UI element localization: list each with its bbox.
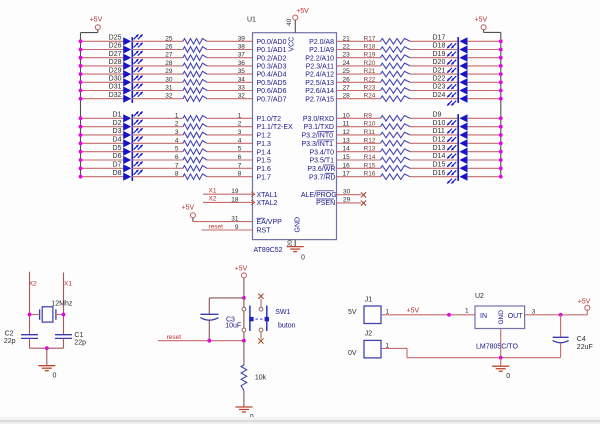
svg-text:J2: J2 (365, 330, 373, 337)
svg-text:34: 34 (238, 76, 246, 83)
svg-text:LM7805C/TO: LM7805C/TO (476, 343, 518, 350)
wire bus to LED D25 (79, 39, 124, 43)
svg-text:D30: D30 (109, 76, 122, 83)
wire LED D22 to bus (467, 80, 502, 84)
wire resistor to LED D22 (410, 81, 458, 83)
LED D31 (109, 83, 143, 95)
wire resistor to pin 34 (207, 81, 253, 83)
svg-text:D29: D29 (109, 67, 122, 74)
svg-text:19: 19 (231, 188, 239, 195)
wire LED D26 to resistor 26 (132, 49, 183, 51)
no-connect X SW1 bottom pin (258, 332, 263, 344)
wire LED D31 to resistor 31 (132, 90, 183, 92)
capacitor C3 10uF (200, 314, 241, 329)
svg-text:D16: D16 (433, 170, 446, 177)
capacitor C1 22p (55, 332, 86, 347)
svg-text:0: 0 (301, 255, 305, 262)
resistor R12 (364, 137, 411, 146)
capacitor C4 22uF (553, 315, 593, 358)
pin 29 (343, 197, 351, 204)
wire resistor to pin 33 (207, 90, 253, 92)
LED D8 (113, 169, 144, 180)
LED D30 (109, 75, 143, 87)
svg-text:PSEN: PSEN (316, 200, 335, 207)
svg-text:P1.1/T2-EX: P1.1/T2-EX (257, 124, 294, 131)
U1 pin label PSEN (316, 199, 335, 207)
wire pin 25 to resistor R21 (337, 73, 381, 75)
svg-text:4: 4 (238, 137, 242, 144)
ground 0 at U1 (287, 247, 305, 262)
pin 9 (235, 224, 239, 231)
pin 11 (343, 121, 350, 128)
wire crystal to X1 (56, 313, 66, 317)
svg-text:27: 27 (165, 52, 173, 59)
wire LED D8 to resistor 8 (132, 176, 183, 178)
wire resistor to pin 5 (207, 151, 253, 153)
svg-text:X1: X1 (64, 281, 72, 288)
svg-text:P1.3: P1.3 (257, 141, 272, 148)
svg-text:D20: D20 (433, 59, 446, 66)
resistor 30 (165, 76, 207, 85)
wire LED D19 to bus (467, 56, 502, 60)
resistor 8 (175, 171, 207, 180)
pin 8 (238, 171, 242, 178)
connector J2 (348, 330, 381, 358)
svg-text:P0.2/AD2: P0.2/AD2 (257, 55, 287, 62)
wire resistor to pin 36 (207, 65, 253, 67)
svg-text:reset: reset (167, 334, 182, 341)
svg-text:P2.7/A15: P2.7/A15 (305, 96, 334, 103)
wire resistor to LED D10 (410, 126, 458, 128)
capacitor C2 22p (4, 331, 38, 346)
wire resistor to LED D13 (410, 151, 458, 153)
LED D3 (113, 128, 144, 139)
svg-text:D18: D18 (433, 43, 446, 50)
svg-text:22p: 22p (74, 340, 86, 347)
wire resistor to LED D17 (410, 40, 458, 42)
svg-text:P0.5/AD5: P0.5/AD5 (257, 80, 287, 87)
svg-text:31: 31 (231, 216, 239, 223)
svg-text:29: 29 (165, 68, 173, 75)
wire resistor to pin 6 (207, 159, 253, 161)
wire LED D1 to resistor 1 (132, 117, 183, 119)
wire U2 OUT to +5V (525, 310, 588, 316)
svg-text:EA/VPP: EA/VPP (257, 219, 283, 226)
wire LED D20 to bus (467, 64, 502, 68)
svg-text:P3.1/TXD: P3.1/TXD (304, 124, 334, 131)
U1 pin label ALE/PROG (301, 191, 337, 199)
svg-text:D8: D8 (113, 170, 122, 177)
resistor 25 (165, 35, 207, 44)
pin 37 (238, 52, 246, 59)
svg-text:P2.1/A9: P2.1/A9 (309, 47, 334, 54)
wire button branch (243, 298, 245, 341)
svg-text:8: 8 (175, 171, 179, 178)
resistor R11 (364, 129, 411, 138)
pin 27 (343, 85, 351, 92)
U1 pin labels P2 port (305, 39, 334, 103)
svg-text:D10: D10 (433, 120, 446, 127)
node X1 (crystal right) (64, 273, 73, 335)
svg-text:D7: D7 (113, 162, 122, 169)
wire pin 13 to resistor R12 (337, 142, 381, 144)
pin 33 (238, 85, 246, 92)
U1 part value AT89C52 (254, 247, 283, 254)
svg-text:P1.7: P1.7 (257, 174, 272, 181)
resistor R19 (364, 52, 411, 61)
LED D7 (113, 161, 144, 173)
pin 19 (231, 188, 239, 195)
resistor R18 (364, 44, 411, 53)
svg-text:10uF: 10uF (225, 323, 241, 330)
svg-text:+5V: +5V (475, 16, 488, 23)
svg-text:9: 9 (235, 224, 239, 231)
U1 pin labels P1 port (257, 116, 294, 181)
svg-text:8: 8 (238, 171, 242, 178)
net +5V label (407, 308, 420, 315)
svg-text:R21: R21 (364, 68, 376, 75)
resistor 1 (175, 112, 207, 121)
svg-text:P3.0/RXD: P3.0/RXD (303, 116, 334, 123)
wire GND pin to ground (294, 240, 296, 247)
wire LED D15 to bus (467, 166, 502, 170)
svg-text:D28: D28 (109, 59, 122, 66)
svg-text:C1: C1 (74, 332, 83, 339)
LED D20 (433, 59, 468, 73)
wire resistor to pin 37 (207, 57, 253, 59)
svg-text:P0.1/AD1: P0.1/AD1 (257, 47, 287, 54)
LED D14 (433, 153, 468, 167)
svg-text:+5V: +5V (182, 204, 195, 211)
wire pin 17 to resistor R16 (337, 176, 381, 178)
pin 20 (rotated) (287, 240, 294, 248)
U1 pin label EA/VPP (257, 218, 283, 226)
resistor R14 (364, 154, 411, 163)
wire resistor to pin 39 (207, 40, 253, 42)
power +5V (right LED supply) (475, 16, 488, 29)
LED D10 (433, 120, 468, 134)
svg-text:P2.5/A13: P2.5/A13 (305, 80, 334, 87)
svg-text:D1: D1 (113, 112, 122, 119)
LED D2 (113, 119, 144, 131)
pin 6 (238, 154, 242, 161)
wire LED D4 to resistor 4 (132, 142, 183, 144)
wire bus to LED D8 (79, 175, 124, 179)
U1 pin label VCC (rotated) (289, 37, 296, 52)
svg-text:R12: R12 (364, 137, 376, 144)
svg-text:R17: R17 (364, 35, 376, 42)
wire resistor to pin 1 (207, 117, 253, 119)
svg-text:R20: R20 (364, 60, 376, 67)
svg-text:P2.2/A10: P2.2/A10 (305, 55, 334, 62)
svg-text:P0.0/AD0: P0.0/AD0 (257, 39, 287, 46)
svg-text:R16: R16 (364, 171, 376, 178)
svg-text:22uF: 22uF (577, 344, 593, 351)
svg-text:P0.3/AD3: P0.3/AD3 (257, 64, 287, 71)
wire pin 28 to resistor R24 (337, 98, 381, 100)
wire resistor to LED D11 (410, 134, 458, 136)
resistor R17 (364, 35, 411, 44)
connector J1 (348, 296, 381, 323)
LED D6 (113, 153, 144, 165)
resistor 10k (241, 365, 267, 391)
wire pin 22 to resistor R18 (337, 49, 381, 51)
svg-text:R9: R9 (364, 112, 373, 119)
wire C1 to ground rail (63, 338, 65, 348)
svg-text:P3.2/INT0: P3.2/INT0 (302, 133, 334, 140)
resistor 3 (175, 129, 207, 138)
wire resistor to pin 2 (207, 126, 253, 128)
svg-text:5: 5 (238, 146, 242, 153)
resistor 26 (165, 44, 207, 53)
svg-text:D13: D13 (433, 145, 446, 152)
pin 32 (238, 93, 246, 100)
U1 pin label GND (rotated) (295, 217, 302, 233)
LED D26 (109, 42, 143, 54)
svg-text:D27: D27 (109, 51, 122, 58)
wire bus to LED D26 (79, 48, 124, 52)
wire resistor to pin 7 (207, 167, 253, 169)
svg-text:5: 5 (175, 146, 179, 153)
pin 40 (rotated) (286, 18, 293, 26)
wire LED D9 to bus (467, 116, 502, 120)
svg-text:U2: U2 (475, 293, 484, 300)
wire ground rail (30, 346, 64, 350)
wire R to ground (243, 391, 245, 407)
wire LED D18 to bus (467, 48, 502, 52)
wire pin 15 to resistor R14 (337, 159, 381, 161)
wire resistor to pin 38 (207, 49, 253, 51)
svg-text:4: 4 (175, 137, 179, 144)
svg-text:P3.4/T0: P3.4/T0 (309, 149, 334, 156)
clock chevron XTAL2 (251, 200, 254, 205)
svg-text:3: 3 (175, 129, 179, 136)
LED D28 (109, 59, 143, 71)
svg-text:33: 33 (238, 85, 246, 92)
svg-text:SW1: SW1 (275, 309, 290, 316)
svg-text:C2: C2 (5, 331, 14, 338)
svg-text:R18: R18 (364, 44, 376, 51)
wire LED D28 to resistor 28 (132, 65, 183, 67)
svg-text:P2.6/A14: P2.6/A14 (305, 88, 334, 95)
resistor R20 (364, 60, 411, 69)
pin 7 (238, 162, 242, 169)
svg-text:1: 1 (175, 112, 179, 119)
wire bus to LED D28 (79, 64, 124, 68)
svg-text:P0.7/AD7: P0.7/AD7 (257, 96, 287, 103)
pin 26 (343, 76, 351, 83)
wire U2 GND to ground (500, 358, 502, 366)
pin 17 (343, 171, 351, 178)
resistor 5 (175, 146, 207, 155)
wire C3 to reset node (208, 320, 210, 340)
wire LED D27 to resistor 27 (132, 57, 183, 59)
svg-text:XTAL1: XTAL1 (257, 192, 278, 199)
pin 38 (238, 44, 246, 51)
pin 3 of U2 (532, 308, 536, 315)
svg-text:D9: D9 (433, 112, 442, 119)
wire LED D23 to bus (467, 89, 502, 93)
svg-text:0: 0 (53, 373, 57, 380)
wire resistor to pin 32 (207, 98, 253, 100)
wire bus to LED D31 (79, 89, 124, 93)
svg-text:P1.4: P1.4 (257, 149, 272, 156)
svg-text:31: 31 (165, 85, 173, 92)
svg-text:P2.4/A12: P2.4/A12 (305, 72, 334, 79)
svg-text:0V: 0V (348, 350, 357, 357)
svg-text:P1.5: P1.5 (257, 158, 272, 165)
svg-text:+5V: +5V (407, 308, 420, 315)
wire LED D12 to bus (467, 141, 502, 145)
wire pin 23 to resistor R19 (337, 57, 381, 59)
svg-text:P0.6/AD6: P0.6/AD6 (257, 88, 287, 95)
svg-text:D2: D2 (113, 120, 122, 127)
wire +5V to right bus (484, 30, 501, 33)
pin 14 (343, 146, 351, 153)
wire LED D25 to resistor 25 (132, 40, 183, 42)
wire resistor to LED D19 (410, 57, 458, 59)
clock chevron XTAL1 (251, 192, 254, 197)
svg-text:P2.3/A11: P2.3/A11 (306, 64, 334, 71)
svg-text:P3.3/INT1: P3.3/INT1 (302, 141, 334, 148)
svg-text:P0.4/AD4: P0.4/AD4 (257, 72, 287, 79)
power +5V at reset circuit (235, 266, 248, 278)
wire LED D6 to resistor 6 (132, 159, 183, 161)
svg-text:IN: IN (480, 313, 487, 320)
svg-text:R10: R10 (364, 121, 376, 128)
wire LED D3 to resistor 3 (132, 134, 183, 136)
resistor R23 (364, 85, 411, 94)
wire LED D11 to bus (467, 133, 502, 137)
svg-text:X1: X1 (209, 187, 217, 194)
svg-text:36: 36 (238, 60, 246, 67)
wire bus to LED D6 (79, 158, 124, 162)
wire LED D30 to resistor 30 (132, 81, 183, 83)
svg-text:6: 6 (238, 154, 242, 161)
svg-text:6: 6 (175, 154, 179, 161)
wire C2 to ground rail (29, 338, 31, 348)
pin 25 (343, 68, 351, 75)
svg-text:3: 3 (238, 129, 242, 136)
node X1 (XTAL1 stub) (203, 187, 253, 194)
svg-text:P2.0/A8: P2.0/A8 (309, 39, 334, 46)
svg-text:+5V: +5V (235, 266, 248, 273)
wire pin 10 to resistor R9 (337, 117, 381, 119)
svg-text:D21: D21 (433, 67, 446, 74)
wire resistor to LED D23 (410, 90, 458, 92)
svg-text:D32: D32 (109, 92, 122, 99)
wire bus to LED D7 (79, 166, 124, 170)
ground 0 at crystal (38, 366, 56, 380)
U1 pin labels P0 port (257, 39, 287, 103)
LED D22 (433, 76, 468, 90)
svg-text:AT89C52: AT89C52 (254, 247, 283, 254)
pin 31 (231, 216, 239, 223)
pin 23 (343, 52, 351, 59)
wire bus to LED D2 (79, 125, 124, 129)
svg-text:P3.5/T1: P3.5/T1 (309, 158, 334, 165)
pushbutton SW1 buton (242, 306, 296, 332)
wire X2 to crystal (28, 313, 40, 317)
regulator U2 LM7805C/TO (475, 293, 525, 328)
LED D17 (433, 35, 468, 49)
pin 5 (238, 146, 242, 153)
svg-text:12Mhz: 12Mhz (51, 300, 73, 307)
wire resistor to LED D20 (410, 65, 458, 67)
power +5V at U1 VCC pin 40 (293, 8, 309, 20)
svg-text:1: 1 (465, 308, 469, 315)
wire J1 to U2 IN (381, 313, 475, 317)
svg-text:R14: R14 (364, 154, 376, 161)
U1 pin label RST (257, 228, 272, 235)
svg-text:R23: R23 (364, 85, 376, 92)
svg-text:0: 0 (506, 373, 510, 380)
pin 2 (238, 121, 242, 128)
resistor R16 (364, 171, 411, 180)
svg-text:P1.2: P1.2 (257, 133, 272, 140)
svg-text:R13: R13 (364, 146, 376, 153)
resistor 2 (175, 121, 207, 130)
svg-text:7: 7 (238, 162, 242, 169)
wire +5V to VCC pin (294, 20, 296, 33)
svg-text:R19: R19 (364, 52, 376, 59)
svg-text:25: 25 (165, 35, 173, 42)
svg-text:D22: D22 (433, 76, 446, 83)
resistor R21 (364, 68, 411, 77)
LED D9 (433, 112, 468, 126)
svg-text:U1: U1 (247, 17, 256, 24)
svg-text:38: 38 (238, 44, 246, 51)
wire resistor to LED D9 (410, 117, 458, 119)
wire pin 12 to resistor R11 (337, 134, 381, 136)
svg-text:40: 40 (286, 18, 293, 26)
power +5V at EA/VPP (182, 204, 196, 217)
svg-text:39: 39 (238, 35, 246, 42)
svg-text:R15: R15 (364, 162, 376, 169)
svg-text:37: 37 (238, 52, 246, 59)
pin 24 (343, 60, 351, 67)
svg-text:ALE/PROG: ALE/PROG (301, 192, 337, 199)
resistor R22 (364, 76, 411, 85)
resistor 27 (165, 52, 207, 61)
wire LED D24 to bus (467, 97, 502, 101)
svg-text:D4: D4 (113, 137, 122, 144)
wire resistor to pin 4 (207, 142, 253, 144)
wire +5V to left bus (81, 30, 98, 33)
wire +5V down to node (242, 278, 246, 300)
wire resistor to LED D24 (410, 98, 458, 100)
pin 1 (238, 112, 242, 119)
svg-text:D23: D23 (433, 84, 446, 91)
wire resistor to LED D14 (410, 159, 458, 161)
wire LED D14 to bus (467, 158, 502, 162)
resistor 29 (165, 68, 207, 77)
wire resistor to LED D21 (410, 73, 458, 75)
svg-text:P1.0/T2: P1.0/T2 (257, 116, 282, 123)
svg-text:+5V: +5V (578, 299, 591, 306)
resistor R9 (364, 112, 411, 121)
LED D16 (433, 170, 468, 184)
svg-text:J1: J1 (365, 296, 373, 303)
wire resistor to LED D15 (410, 167, 458, 169)
ground 0 at U2 (492, 366, 510, 380)
wire pin 27 to resistor R23 (337, 90, 381, 92)
pin 39 (238, 35, 246, 42)
LED D1 (113, 111, 144, 123)
wire bus to LED D32 (79, 97, 124, 101)
svg-text:R22: R22 (364, 76, 376, 83)
svg-text:D6: D6 (113, 153, 122, 160)
